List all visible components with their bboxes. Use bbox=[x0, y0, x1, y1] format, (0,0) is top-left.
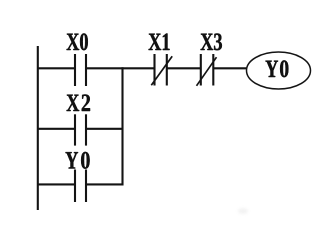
label X1 bbox=[149, 34, 170, 51]
left power rail bbox=[37, 46, 39, 210]
wire branch2 rail to X2 bbox=[37, 128, 75, 130]
wire rung1 X1 to X3 bbox=[167, 67, 201, 69]
wire branch2 X2 to junction bbox=[86, 128, 124, 130]
label X3 bbox=[201, 33, 222, 50]
label Y0 (coil) bbox=[266, 60, 289, 77]
wire branch3 Y0 contact to junction bbox=[86, 183, 124, 185]
label X2 bbox=[67, 94, 90, 111]
wire rung1 X0 to X1 bbox=[86, 67, 155, 69]
slash of contact X3 bbox=[197, 57, 217, 86]
wire rung1 X3 to coil Y0 bbox=[213, 67, 247, 69]
contact X3 (NC) bbox=[200, 54, 202, 86]
wire branch3 rail to Y0 contact bbox=[37, 183, 75, 185]
slash of contact X1 bbox=[151, 56, 172, 85]
wire rung1 rail to X0 bbox=[37, 67, 75, 69]
contact Y0 bbox=[74, 170, 76, 203]
contact X2 bbox=[74, 114, 76, 145]
wire junction vertical bbox=[121, 67, 123, 185]
coil Y0 oval bbox=[247, 52, 311, 89]
contact X1 (NC) bbox=[153, 54, 155, 86]
label Y0 (branch contact) bbox=[66, 152, 90, 169]
faint watermark smudge bbox=[238, 208, 248, 213]
label X0 bbox=[67, 33, 88, 50]
contact X0 bbox=[74, 54, 76, 86]
